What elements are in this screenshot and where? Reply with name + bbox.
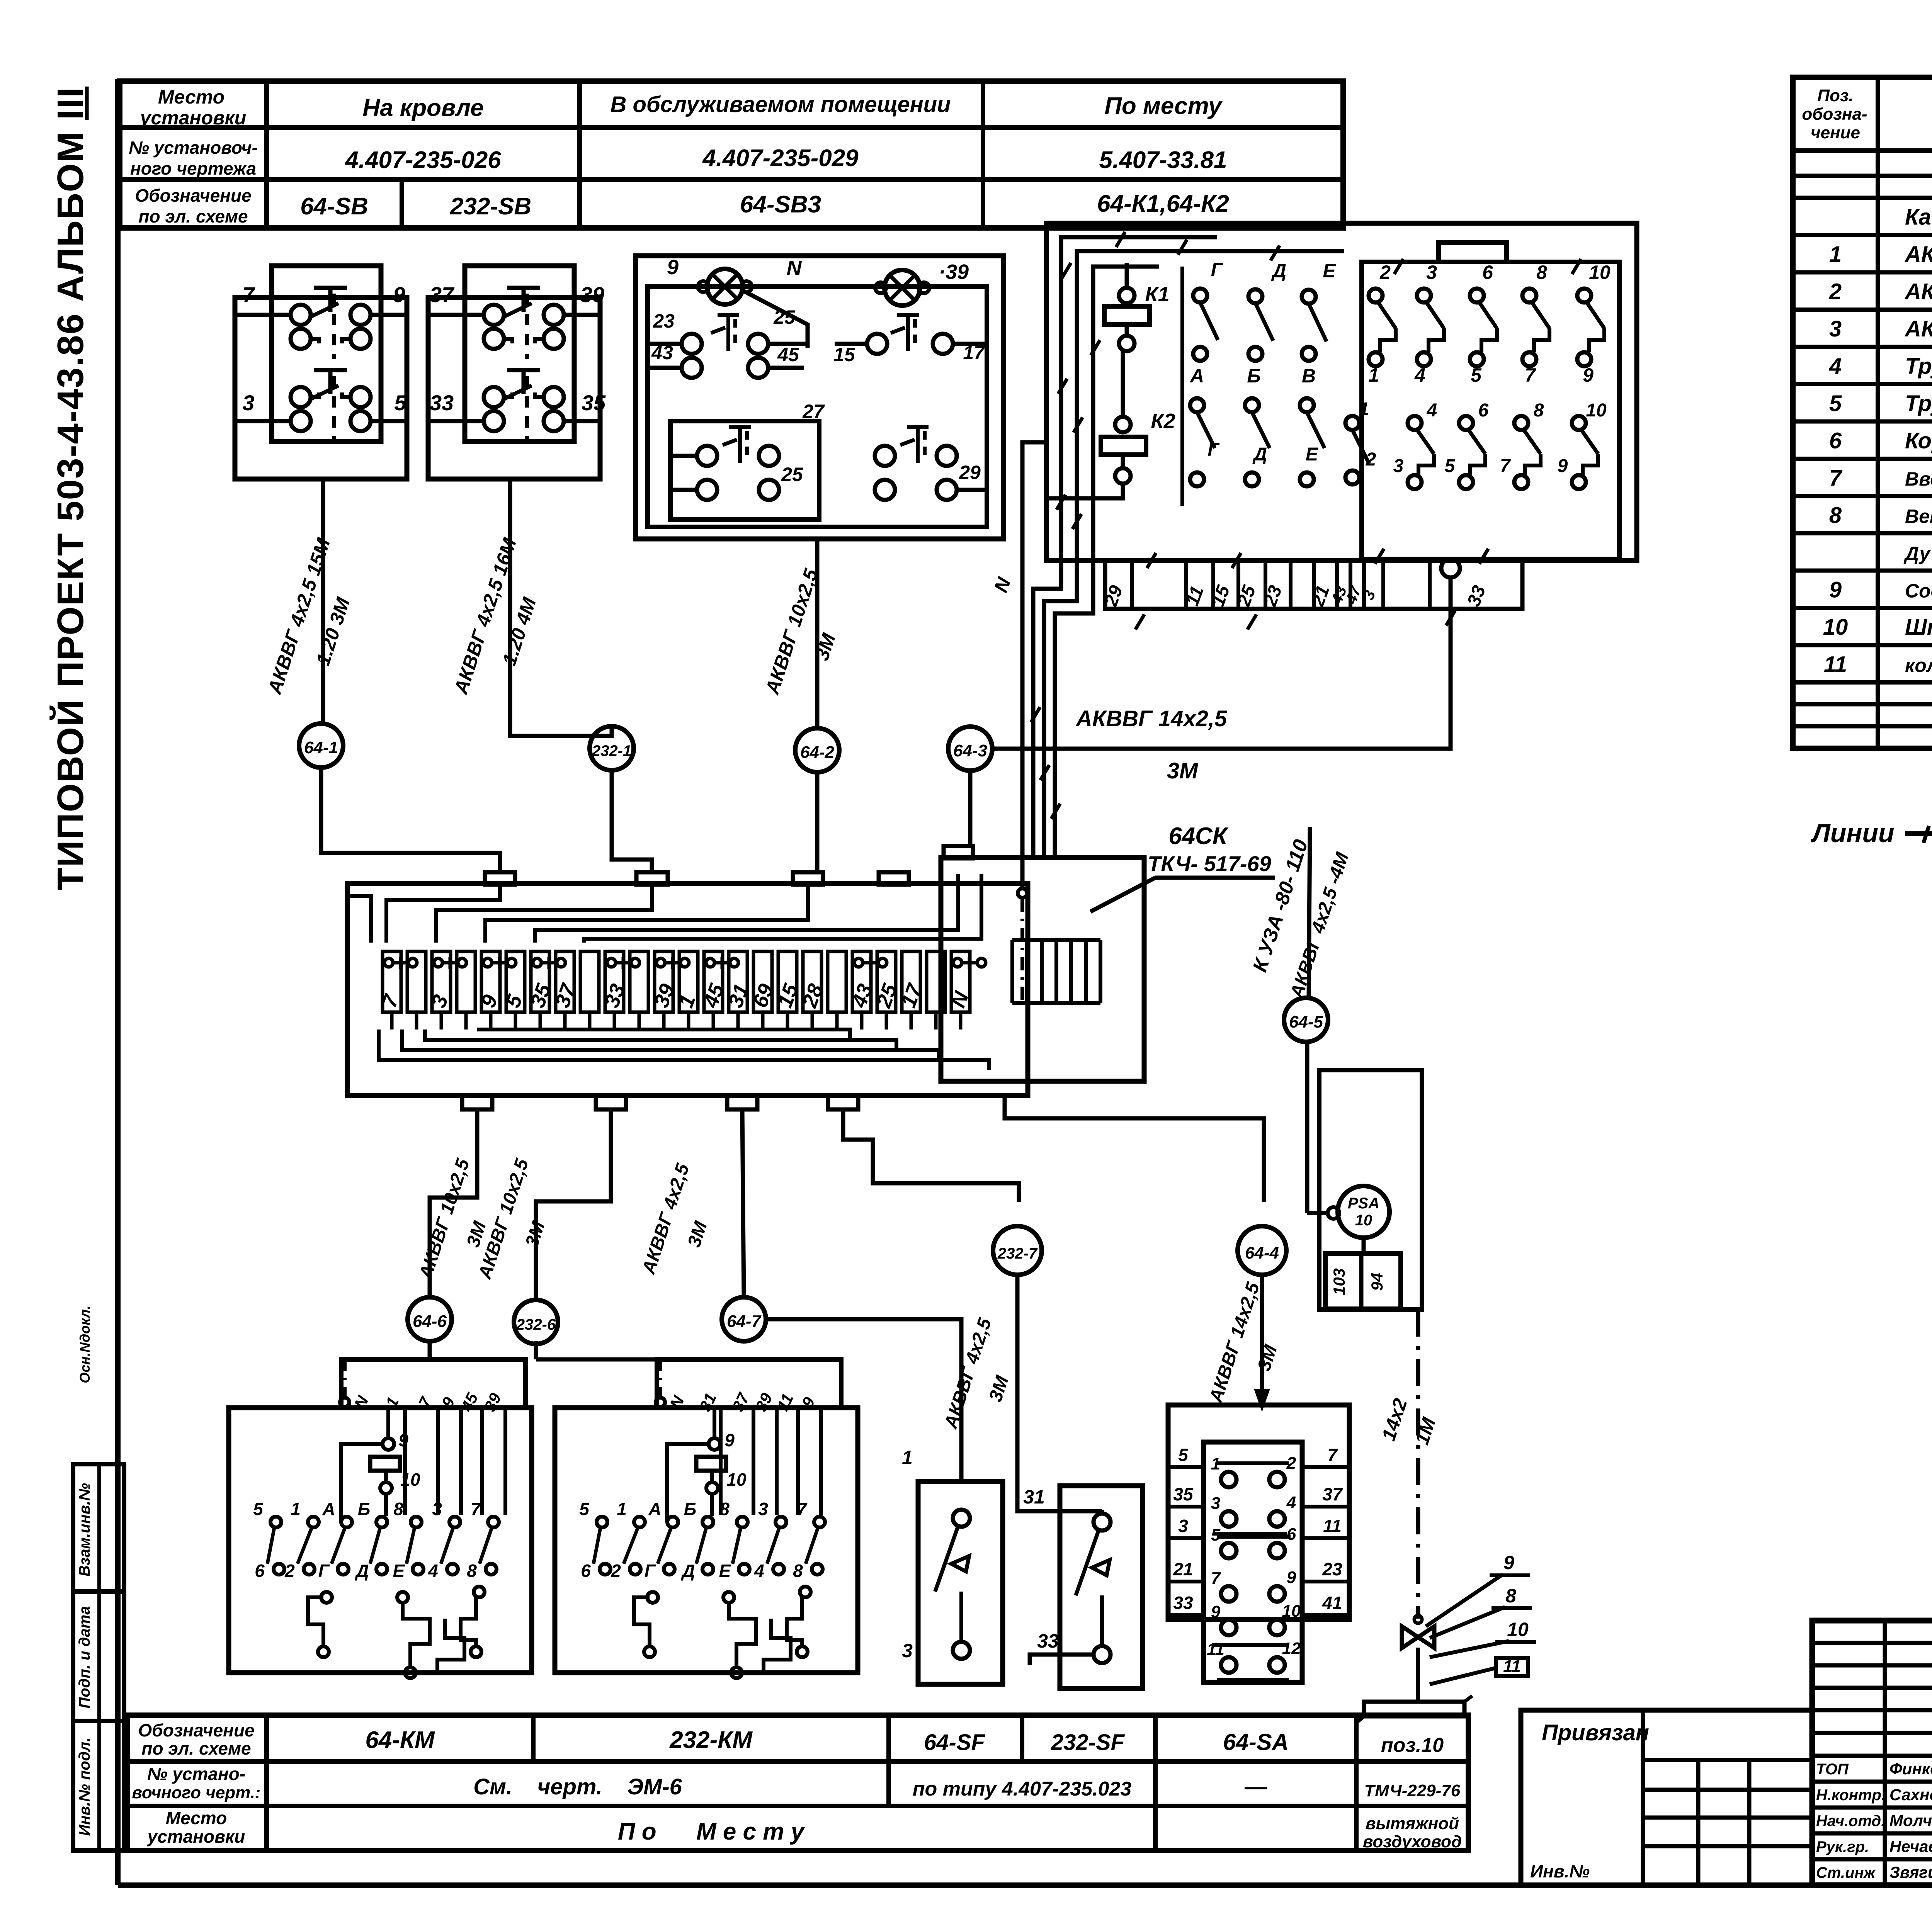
svg-text:Подп. и дата: Подп. и дата	[76, 1606, 93, 1709]
svg-text:4: 4	[1829, 353, 1842, 379]
64-KM coil hook wire	[341, 1444, 383, 1522]
svg-text:4: 4	[1414, 364, 1425, 386]
64-KM zigzag contact 3	[461, 1597, 476, 1646]
terminal cell 69	[753, 951, 772, 1012]
svg-text:PSA: PSA	[1348, 1195, 1379, 1212]
svg-text:Е: Е	[719, 1561, 731, 1581]
svg-text:25: 25	[781, 464, 803, 485]
svg-text:23: 23	[653, 310, 675, 332]
terminal cell 17	[902, 951, 920, 1012]
strip N entry circle	[1018, 888, 1027, 898]
232-KM relay coil	[696, 1457, 726, 1471]
terminal cell 3	[457, 951, 475, 1012]
terminal strip left entry wire	[347, 896, 371, 943]
svg-text:10: 10	[1823, 615, 1848, 640]
pipe line 14x2 dash-dot	[1416, 1310, 1420, 1619]
svg-text:8: 8	[467, 1561, 477, 1581]
232-KM zigzag contact 3	[787, 1597, 802, 1646]
lamp box contact 23-25	[682, 334, 702, 354]
svg-text:Г: Г	[1211, 259, 1224, 280]
wire node 64-3 to strip tab4	[968, 771, 973, 846]
svg-text:Д: Д	[354, 1561, 369, 1581]
lamp box wire lamp1 to contact	[743, 291, 808, 348]
pointer 8	[1430, 1607, 1505, 1638]
parts row Ду 15мм Ру	[1793, 569, 1932, 573]
64-KM feed wire from node	[428, 1341, 432, 1359]
svg-text:37: 37	[430, 282, 455, 307]
svg-text:64СК: 64СК	[1168, 823, 1229, 849]
svg-text:Кабель ГОСТ 1508-78: Кабель ГОСТ 1508-78	[1905, 204, 1932, 229]
svg-text:10: 10	[1282, 1602, 1301, 1621]
svg-text:4: 4	[1286, 1493, 1296, 1512]
relay column inner border	[1180, 267, 1184, 506]
svg-text:8: 8	[793, 1561, 803, 1581]
terminal strip top tabs	[485, 872, 515, 885]
svg-text:Ст.инж: Ст.инж	[1816, 1864, 1876, 1881]
svg-text:64-3: 64-3	[953, 741, 987, 760]
terminal strip right section plain cells	[1010, 940, 1014, 1003]
node 64-1	[299, 724, 343, 768]
svg-text:1: 1	[1368, 364, 1379, 386]
top-left table row3 divider	[400, 180, 404, 228]
svg-text:64-SB3: 64-SB3	[740, 191, 821, 218]
svg-text:41: 41	[1322, 1593, 1342, 1613]
svg-text:45: 45	[777, 344, 799, 365]
svg-text:Вентиль запорный муфтовый 15кч: Вентиль запорный муфтовый 15кч18П2	[1905, 505, 1932, 527]
T contact symbol	[900, 440, 915, 445]
wire node 64-3 to K-box junction 33	[992, 578, 1451, 749]
SA row 7-9	[1221, 1586, 1236, 1602]
svg-text:1: 1	[1829, 242, 1842, 267]
64-KM contact row upper	[270, 1517, 281, 1527]
parts list table frame	[1793, 77, 1932, 748]
svg-text:Е: Е	[1323, 260, 1336, 282]
svg-text:7: 7	[242, 282, 255, 307]
svg-text:2: 2	[611, 1561, 621, 1581]
svg-text:чение: чение	[1811, 123, 1860, 142]
232-SB T contact symbol	[507, 286, 540, 290]
relay K2 coil	[1101, 437, 1146, 455]
svg-text:По месту: По месту	[1104, 93, 1223, 119]
232-SB contact leads	[428, 313, 484, 317]
64-SB contact hooks	[311, 392, 319, 397]
contact 10-9 lower	[1572, 416, 1586, 430]
svg-text:Обозначение: Обозначение	[138, 1720, 254, 1740]
svg-text:9: 9	[398, 1430, 408, 1450]
parts table header underline	[1793, 148, 1932, 153]
svg-text:2: 2	[1829, 279, 1842, 304]
svg-text:Д: Д	[1252, 444, 1267, 465]
svg-text:Привязан: Привязан	[1542, 1720, 1649, 1745]
svg-text:Г: Г	[1207, 440, 1220, 460]
relay box nested bus wire A	[1033, 237, 1217, 858]
switch box 64-SF	[918, 1481, 1003, 1684]
terminal cell 8	[580, 951, 599, 1012]
svg-text:Линии: Линии	[1810, 819, 1894, 848]
svg-text:8: 8	[1536, 262, 1547, 283]
svg-text:3: 3	[432, 1499, 442, 1519]
relay box bottom terminal row	[1105, 561, 1522, 609]
SA box outer	[1168, 1405, 1349, 1619]
svg-text:Взам.инв.№: Взам.инв.№	[76, 1483, 93, 1577]
svg-text:3: 3	[758, 1499, 768, 1519]
jumper	[656, 958, 665, 967]
232-SB contact leads	[428, 419, 484, 423]
switch box 64-SB outer	[235, 297, 407, 479]
svg-text:3: 3	[242, 391, 254, 415]
svg-text:3М: 3М	[1167, 758, 1199, 783]
parts row 9	[1793, 606, 1932, 610]
pointer 9	[1426, 1574, 1503, 1626]
64-SB contact hooks	[311, 339, 319, 343]
strip label leader line	[1090, 878, 1155, 912]
terminal cell 5	[506, 951, 525, 1012]
terminal cell 3	[432, 951, 451, 1012]
relay lower contact column D2	[1245, 398, 1259, 412]
232-KM bus disconnect circle	[656, 1398, 665, 1407]
title block outer	[1812, 1621, 1932, 1885]
left stamp column boxes	[73, 1464, 124, 1850]
relay K1 coil	[1104, 306, 1150, 324]
lamp box 64-SB3 inner	[648, 287, 987, 527]
svg-text:5: 5	[1471, 364, 1482, 386]
svg-text:ного чертежа: ного чертежа	[130, 158, 256, 178]
svg-text:64-SB: 64-SB	[300, 193, 368, 220]
svg-text:4: 4	[428, 1561, 438, 1581]
svg-text:8: 8	[1505, 1585, 1516, 1607]
svg-text:5: 5	[253, 1499, 264, 1519]
svg-text:10: 10	[1589, 262, 1611, 283]
svg-text:по эл. схеме: по эл. схеме	[141, 1738, 251, 1758]
svg-text:9: 9	[1558, 456, 1568, 476]
svg-text:9: 9	[667, 256, 679, 279]
node 64-6	[408, 1297, 452, 1341]
sheet frame bottom border	[118, 1882, 1932, 1888]
terminal strip inner bus wires below cells	[477, 1030, 850, 1039]
svg-text:Б: Б	[358, 1499, 371, 1519]
node 64-3	[948, 727, 992, 771]
node 232-7	[993, 1226, 1042, 1275]
svg-text:2: 2	[1366, 449, 1376, 470]
jumper	[384, 958, 393, 967]
svg-text:232-1: 232-1	[592, 742, 631, 759]
lamp box 64-SB3 outer	[636, 256, 1003, 539]
contact 6-5 lower	[1459, 416, 1473, 430]
svg-text:№ устано-: № устано-	[147, 1764, 245, 1784]
svg-text:64-5: 64-5	[1289, 1013, 1323, 1031]
232-KM zigzag contact 1	[634, 1597, 650, 1646]
232-KM bus wires into box	[719, 1408, 723, 1515]
wire node 64-7 to 64-SF box	[766, 1319, 961, 1481]
64-SB contact group terminals	[291, 305, 311, 325]
svg-text:43: 43	[651, 342, 673, 364]
title block signature grid	[1812, 1641, 1932, 1645]
svg-text:3: 3	[1829, 316, 1842, 341]
svg-text:232-SF: 232-SF	[1051, 1730, 1125, 1755]
svg-text:6: 6	[581, 1561, 591, 1581]
lamp box lower contact A	[697, 446, 717, 466]
terminal strip right outer box	[941, 858, 1144, 1081]
svg-text:25: 25	[773, 306, 796, 328]
parts row 7	[1793, 494, 1932, 498]
jumper	[607, 958, 616, 967]
parts table blank rows	[1793, 174, 1932, 178]
relay box nested bus wire B	[1044, 251, 1344, 858]
svg-text:Коробка соединительная КС-40: Коробка соединительная КС-40	[1905, 428, 1932, 453]
terminal cell 37	[556, 951, 574, 1012]
terminal cell 33	[605, 951, 624, 1012]
switch box 232-SF	[1060, 1486, 1143, 1689]
svg-text:103: 103	[1330, 1268, 1348, 1295]
svg-text:АКВВГ 4 х 2,5: АКВВГ 4 х 2,5	[1904, 242, 1932, 267]
svg-text:6: 6	[1829, 428, 1842, 453]
64-SB T contact symbol	[314, 368, 347, 372]
svg-text:3: 3	[902, 1640, 913, 1661]
lamp HL1	[707, 269, 743, 304]
wire 64-SB3 to node 64-2	[815, 539, 820, 728]
svg-text:11: 11	[1824, 652, 1847, 677]
svg-text:232-6: 232-6	[516, 1316, 556, 1333]
svg-text:Б: Б	[1247, 365, 1260, 387]
parts row 11	[1793, 680, 1932, 685]
terminal cell 45	[704, 951, 723, 1012]
svg-text:10: 10	[726, 1470, 747, 1490]
svg-text:См. черт. ЭМ-6: См. черт. ЭМ-6	[473, 1774, 682, 1799]
svg-text:7: 7	[1829, 465, 1843, 491]
svg-text:35: 35	[582, 391, 606, 415]
node 232-1	[590, 726, 634, 770]
svg-text:10: 10	[1355, 1212, 1372, 1229]
232-KM coil hook wire	[667, 1444, 709, 1522]
svg-text:7: 7	[471, 1499, 481, 1519]
svg-text:К2: К2	[1151, 409, 1175, 433]
parts row 3	[1793, 345, 1932, 349]
svg-text:по эл. схеме: по эл. схеме	[138, 206, 248, 226]
terminal cell 31	[729, 951, 747, 1012]
svg-text:64-7: 64-7	[727, 1312, 762, 1331]
64-KM bus entry box	[341, 1359, 526, 1408]
relay lower mid contacts 1-2	[1345, 416, 1359, 430]
wire 64-4 into SA box	[1260, 1275, 1264, 1405]
svg-text:·39: ·39	[939, 260, 969, 284]
svg-text:8: 8	[393, 1499, 403, 1519]
node 64-7	[722, 1297, 766, 1341]
svg-text:На кровле: На кровле	[362, 95, 483, 121]
switch box 232-SB outer	[428, 297, 600, 479]
parts row 8	[1793, 531, 1932, 535]
wire strip bottom to node 64-4	[1005, 1096, 1264, 1202]
valve to flange stem	[1416, 1648, 1420, 1700]
SA row 5-6	[1221, 1543, 1236, 1558]
svg-text:33: 33	[1037, 1630, 1059, 1652]
jumper	[953, 958, 962, 967]
node 64-2	[795, 728, 839, 772]
64-KM relay coil	[370, 1457, 400, 1471]
SA row 11-12	[1221, 1657, 1236, 1673]
jumper	[706, 958, 714, 967]
svg-text:Н.контр.: Н.контр.	[1816, 1787, 1886, 1804]
svg-text:9: 9	[724, 1430, 735, 1450]
T contact symbol	[891, 328, 905, 333]
svg-text:4.407-235-029: 4.407-235-029	[702, 145, 859, 172]
svg-text:Е: Е	[1306, 444, 1319, 465]
svg-text:Место: Место	[158, 86, 224, 108]
wire 232-6 to 232-KM bus	[534, 1344, 538, 1359]
svg-text:ТМЧ-229-76: ТМЧ-229-76	[1364, 1781, 1461, 1800]
contact 8-7 lower	[1514, 416, 1528, 430]
svg-text:64-2: 64-2	[800, 743, 835, 762]
svg-text:А: А	[648, 1499, 661, 1519]
terminal cell 9	[481, 951, 500, 1012]
svg-text:232-SB: 232-SB	[450, 193, 531, 220]
jumper	[434, 958, 442, 967]
privyazan box	[1521, 1710, 1812, 1885]
PSA enclosure box	[1319, 1070, 1422, 1310]
junction circle 33	[1441, 559, 1460, 578]
svg-text:31: 31	[1023, 1486, 1045, 1508]
svg-text:232-7: 232-7	[997, 1245, 1038, 1262]
SA row 1-2	[1221, 1472, 1236, 1487]
lamp box contact 15-17	[867, 334, 887, 354]
svg-text:вытяжной: вытяжной	[1366, 1814, 1459, 1833]
parts row 6	[1793, 457, 1932, 461]
wire 232-SB to node 232-1	[510, 479, 612, 736]
relay box 64-K1 64-K2 outer	[1046, 223, 1637, 561]
node 64-4	[1238, 1226, 1286, 1275]
wire KUZA free stub to node 64-5	[1309, 827, 1310, 998]
64-KM contact blades	[267, 1527, 274, 1564]
wire node 64-1 to strip tab1	[321, 768, 500, 872]
svg-text:Штуцер шу Труб 1/2 ": Штуцер шу Труб 1/2 "	[1905, 615, 1932, 640]
svg-text:N: N	[787, 257, 802, 280]
svg-text:33: 33	[430, 391, 454, 415]
svg-text:4: 4	[1427, 400, 1437, 421]
svg-text:Г: Г	[645, 1561, 656, 1581]
wire node 64-5 down to PSA	[1305, 1042, 1310, 1213]
svg-text:5: 5	[1178, 1445, 1189, 1465]
svg-text:7: 7	[1525, 364, 1536, 386]
relay box right contact group box	[1362, 262, 1619, 559]
bottom table col dividers row1	[531, 1715, 536, 1762]
wire 64-SB to node 64-1	[321, 479, 325, 724]
svg-text:64-SA: 64-SA	[1223, 1729, 1289, 1755]
svg-text:3: 3	[1426, 262, 1437, 283]
sheet frame left border	[115, 79, 121, 1885]
svg-text:37: 37	[1322, 1484, 1343, 1504]
232-KM contact row lower	[600, 1564, 611, 1575]
svg-text:8: 8	[1534, 400, 1544, 421]
svg-text:3: 3	[1393, 456, 1404, 476]
demolition ticks on relay box wires	[1062, 263, 1071, 278]
svg-text:Труба 14х2 ГОСТ 8734-75: Труба 14х2 ГОСТ 8734-75	[1905, 353, 1932, 379]
svg-text:Е: Е	[393, 1561, 405, 1581]
svg-text:Обозначение: Обозначение	[135, 185, 251, 206]
svg-text:П о М е с т у: П о М е с т у	[618, 1818, 806, 1845]
svg-text:воздуховод: воздуховод	[1363, 1832, 1462, 1851]
svg-text:Ввод кабельный ВКУ-22 ТУ36 116: Ввод кабельный ВКУ-22 ТУ36 1164-79	[1905, 468, 1932, 490]
svg-text:1: 1	[1359, 399, 1369, 420]
lamp HL2	[884, 270, 920, 306]
svg-text:3: 3	[1211, 1494, 1220, 1513]
wire strip tab4b to node 232-7	[843, 1109, 1019, 1202]
svg-text:1: 1	[902, 1447, 913, 1468]
svg-text:Сахновская: Сахновская	[1889, 1785, 1932, 1804]
svg-text:Ду 15мм Ру 16кгс/см² ГОСТ 652: Ду 15мм Ру 16кгс/см² ГОСТ 6527-68*	[1903, 543, 1932, 564]
svg-text:39: 39	[580, 282, 604, 307]
svg-text:232-КМ: 232-КМ	[669, 1727, 753, 1753]
svg-text:Нечаева: Нечаева	[1889, 1837, 1932, 1855]
232-SB contact group terminals	[484, 387, 504, 407]
parts row 1	[1793, 270, 1932, 275]
wire strip tab1b to node 64-6	[430, 1109, 477, 1297]
T contact symbol	[723, 440, 737, 445]
terminal cell 15	[778, 951, 797, 1012]
svg-text:15: 15	[833, 344, 855, 365]
232-SB contact hooks	[504, 392, 512, 397]
parts row 4	[1793, 382, 1932, 386]
svg-text:64-1: 64-1	[304, 738, 338, 757]
232-KM contact row upper	[597, 1517, 607, 1527]
64-KM contact row lower	[274, 1564, 284, 1575]
wire node 64-2 to strip tab3	[815, 772, 820, 872]
jumper	[483, 958, 492, 967]
232-KM contact blades	[594, 1527, 600, 1564]
terminal cell N	[951, 951, 970, 1012]
64-KM main box	[229, 1408, 532, 1673]
232-KM zigzag contact 2	[729, 1603, 756, 1667]
64-KM zigzag contact 2	[403, 1603, 430, 1667]
svg-text:Нач.отд.: Нач.отд.	[1816, 1813, 1885, 1830]
terminal cell 28	[803, 951, 821, 1012]
SA row 3-4	[1221, 1511, 1236, 1527]
svg-text:5: 5	[394, 391, 406, 415]
svg-text:5: 5	[1829, 391, 1842, 416]
terminal cell 10	[630, 951, 648, 1012]
T contact symbol	[711, 328, 725, 333]
232-SB T contact symbol	[507, 368, 540, 372]
svg-text:9: 9	[1211, 1602, 1221, 1621]
svg-text:обозна-: обозна-	[1802, 105, 1867, 124]
svg-text:1: 1	[291, 1499, 301, 1519]
svg-text:ТКЧ- 517-69: ТКЧ- 517-69	[1148, 851, 1271, 876]
svg-text:установки: установки	[139, 107, 247, 129]
svg-text:5: 5	[1445, 456, 1456, 476]
svg-text:№ установоч-: № установоч-	[129, 138, 258, 158]
flange bar	[1364, 1702, 1464, 1716]
svg-text:Соединитель НСВ 14х1/2" ТУ36.1: Соединитель НСВ 14х1/2" ТУ36.1104-75	[1905, 580, 1932, 601]
svg-text:7: 7	[1500, 456, 1511, 476]
svg-text:7: 7	[1211, 1569, 1221, 1588]
svg-text:Д: Д	[1271, 260, 1286, 282]
svg-text:Звягинцев: Звягинцев	[1889, 1863, 1932, 1881]
jumper	[533, 958, 541, 967]
232-KM feed wire from node	[534, 1341, 538, 1359]
svg-text:23: 23	[1322, 1559, 1342, 1579]
svg-text:Б: Б	[684, 1499, 697, 1519]
svg-text:64-4: 64-4	[1245, 1244, 1279, 1262]
svg-text:Молчанов: Молчанов	[1889, 1811, 1932, 1830]
svg-text:29: 29	[959, 462, 981, 483]
relay K2 left feed wire N	[1046, 484, 1123, 498]
parts row Кабель ГОСТ	[1793, 233, 1932, 237]
svg-text:Осн.Nдокл.: Осн.Nдокл.	[77, 1305, 93, 1383]
svg-text:4: 4	[754, 1561, 764, 1581]
terminal cell 1	[407, 951, 426, 1012]
64-SB contact leads	[235, 313, 291, 317]
svg-text:вочного черт.:: вочного черт.:	[132, 1783, 260, 1802]
svg-text:10: 10	[1507, 1619, 1529, 1640]
svg-text:11: 11	[1207, 1640, 1225, 1659]
